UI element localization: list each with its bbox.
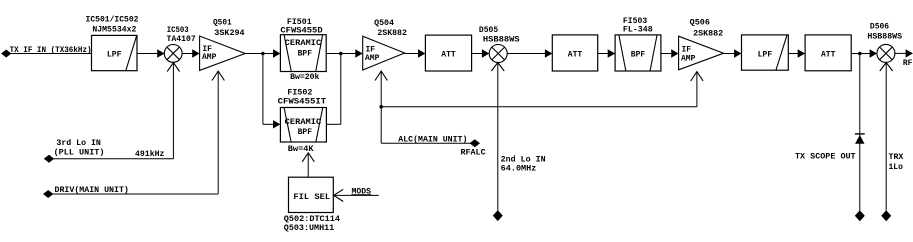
- svg-text:491kHz: 491kHz: [135, 150, 165, 159]
- svg-text:D505: D505: [479, 26, 499, 35]
- svg-text:2nd Lo IN: 2nd Lo IN: [501, 155, 546, 164]
- svg-text:HSB88WS: HSB88WS: [483, 35, 520, 44]
- svg-text:IC501/IC502: IC501/IC502: [86, 15, 139, 24]
- svg-text:IC503: IC503: [167, 26, 189, 35]
- svg-text:LPF: LPF: [107, 50, 122, 59]
- svg-text:64.0MHz: 64.0MHz: [501, 165, 537, 174]
- svg-text:Bw=20k: Bw=20k: [290, 73, 319, 82]
- svg-text:RFALC: RFALC: [461, 149, 486, 158]
- svg-text:TX IF IN (TX36kHz): TX IF IN (TX36kHz): [10, 46, 92, 55]
- svg-text:CERAMIC: CERAMIC: [285, 118, 322, 127]
- svg-text:Q503:UMH11: Q503:UMH11: [284, 224, 335, 233]
- svg-text:IF: IF: [682, 46, 692, 55]
- svg-text:3rd Lo IN: 3rd Lo IN: [56, 139, 101, 148]
- svg-text:HSB88WS: HSB88WS: [867, 33, 902, 42]
- svg-text:TX SCOPE OUT: TX SCOPE OUT: [795, 153, 856, 162]
- svg-text:2SK882: 2SK882: [693, 30, 723, 39]
- svg-text:NJM5534x2: NJM5534x2: [92, 25, 136, 34]
- svg-text:FI502: FI502: [287, 89, 312, 98]
- svg-text:BPF: BPF: [631, 50, 646, 59]
- svg-text:TA4107: TA4107: [167, 35, 196, 44]
- svg-text:Q506: Q506: [690, 19, 710, 28]
- svg-text:DRIV(MAIN UNIT): DRIV(MAIN UNIT): [55, 186, 129, 195]
- svg-text:Q504: Q504: [374, 19, 394, 28]
- svg-text:AMP: AMP: [202, 53, 217, 62]
- svg-text:2SK882: 2SK882: [377, 29, 407, 38]
- svg-text:TRX: TRX: [889, 153, 904, 162]
- svg-text:AMP: AMP: [365, 54, 380, 63]
- svg-text:CERAMIC: CERAMIC: [285, 39, 322, 48]
- svg-text:BPF: BPF: [298, 50, 313, 59]
- svg-text:(PLL UNIT): (PLL UNIT): [54, 149, 105, 158]
- svg-text:Q501: Q501: [213, 19, 232, 28]
- svg-text:ALC(MAIN UNIT): ALC(MAIN UNIT): [398, 136, 467, 145]
- svg-text:FIL SEL: FIL SEL: [293, 193, 330, 202]
- svg-text:ATT: ATT: [821, 50, 836, 59]
- svg-text:D506: D506: [870, 23, 889, 32]
- svg-text:1Lo: 1Lo: [889, 163, 904, 172]
- svg-text:ATT: ATT: [568, 50, 583, 59]
- svg-text:AMP: AMP: [681, 55, 696, 64]
- svg-text:RF: RF: [903, 59, 913, 68]
- svg-text:3SK294: 3SK294: [214, 29, 245, 38]
- svg-text:BPF: BPF: [298, 128, 313, 137]
- svg-text:MODS: MODS: [352, 188, 372, 197]
- svg-text:Q502:DTC114: Q502:DTC114: [284, 215, 340, 224]
- svg-text:CFWS455D: CFWS455D: [280, 26, 322, 35]
- svg-text:FL-348: FL-348: [623, 25, 653, 34]
- svg-text:LPF: LPF: [758, 50, 773, 59]
- svg-text:CFWS455IT: CFWS455IT: [278, 98, 327, 107]
- svg-text:Bw=4K: Bw=4K: [288, 145, 314, 154]
- svg-text:ATT: ATT: [441, 50, 456, 59]
